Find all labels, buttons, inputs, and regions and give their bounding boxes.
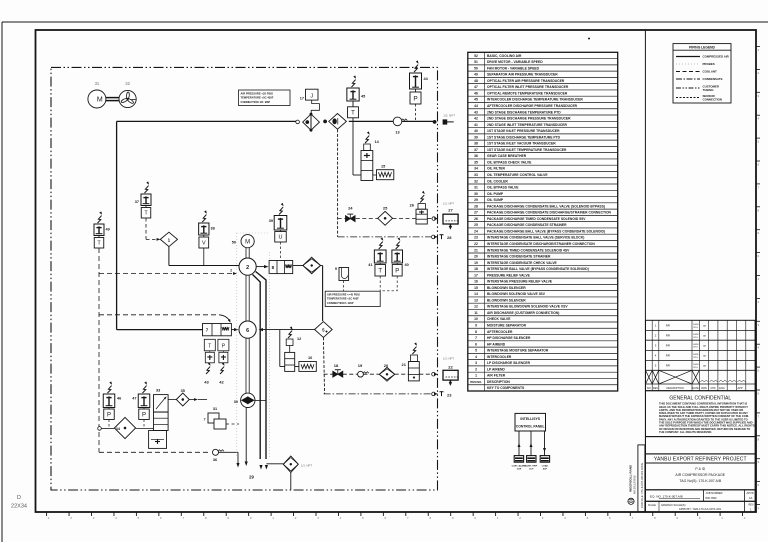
svg-text:9: 9	[475, 324, 477, 328]
ball valve 18	[333, 371, 338, 377]
eq row	[646, 490, 756, 502]
svg-text:3CR: 3CR	[517, 469, 522, 471]
svg-text:37: 37	[474, 148, 478, 152]
svg-text:OIL COOLER: OIL COOLER	[487, 179, 508, 183]
svg-text:BTG: BTG	[694, 337, 699, 339]
svg-text:48: 48	[474, 79, 478, 83]
drain from diamond B	[337, 129, 339, 237]
svg-text:APPD BY: YER-170-KA-0071-: APPD BY: YER-170-KA-0071-001	[679, 507, 722, 511]
svg-text:TAG No(S): 170-K-007 A/B: TAG No(S): 170-K-007 A/B	[679, 479, 721, 483]
svg-text:40: 40	[474, 129, 478, 133]
svg-text:T: T	[351, 110, 355, 116]
svg-text:OIL PUMP: OIL PUMP	[487, 192, 504, 196]
filter diamond 4	[303, 257, 321, 273]
bottom ruler ticks	[46, 513, 48, 517]
svg-text:39: 39	[269, 219, 273, 223]
svg-text:41: 41	[368, 263, 372, 267]
svg-text:NO: NO	[647, 387, 651, 390]
filter 35	[176, 393, 189, 406]
panel wires	[518, 431, 520, 456]
svg-text:INTERCOOLER DISCHARGE TEMPERAT: INTERCOOLER DISCHARGE TEMPERATURE TRANSD…	[487, 98, 583, 102]
svg-text:50: 50	[474, 66, 478, 70]
svg-text:1/2: NPT: 1/2: NPT	[443, 114, 455, 118]
svg-text:COOLANT: COOLANT	[703, 70, 718, 74]
svg-text:31: 31	[95, 81, 100, 86]
svg-text:PACKAGE DISCHARGE TIMED CONDEN: PACKAGE DISCHARGE TIMED CONDENSATE SOLEN…	[487, 217, 586, 221]
svg-text:P & ID: P & ID	[695, 467, 705, 471]
silencer 10	[295, 366, 299, 368]
svg-text:CHECK VALVE: CHECK VALVE	[487, 317, 511, 321]
svg-text:OPTICAL FILTER INLET PRESSURE: OPTICAL FILTER INLET PRESSURE TRANSDUCER	[487, 85, 569, 89]
main exit arrow + label	[433, 120, 436, 123]
shaft	[106, 97, 119, 99]
svg-text:26: 26	[410, 203, 415, 208]
wire 5 to cooler 6	[260, 329, 315, 331]
svg-text:12: 12	[474, 305, 478, 309]
svg-text:D: D	[17, 495, 21, 501]
instrument J 17	[306, 89, 319, 100]
svg-text:42: 42	[219, 380, 224, 385]
svg-text:CONNECTION 1/2: BSP: CONNECTION 1/2: BSP	[241, 100, 271, 104]
svg-text:PACKAGE DISCHARGE CONDENSATE S: PACKAGE DISCHARGE CONDENSATE STRAINER	[487, 223, 567, 227]
svg-text:INTERSTAGE BALL VALVE (BYPASS: INTERSTAGE BALL VALVE (BYPASS CONDENSATE…	[487, 267, 589, 271]
svg-text:35: 35	[181, 389, 185, 393]
svg-text:33: 33	[474, 173, 478, 177]
svg-text:DRN: DRN	[701, 387, 707, 390]
svg-text:OIL SUMP: OIL SUMP	[487, 198, 504, 202]
svg-text:RFI: RFI	[666, 364, 671, 368]
spec box (interstage)	[325, 291, 380, 306]
silencer 5	[315, 322, 333, 338]
svg-text:CAD FILE: 170-K-007-AB-001.DWG: CAD FILE: 170-K-007-AB-001.DWG	[640, 463, 644, 508]
svg-text:46: 46	[474, 91, 478, 95]
svg-text:17: 17	[474, 273, 478, 277]
wire 25-26	[393, 218, 417, 220]
svg-text:APP: APP	[737, 387, 742, 390]
svg-text:DATE: DATE	[692, 387, 699, 390]
svg-text:BTG: BTG	[694, 367, 699, 369]
drain from 5	[323, 337, 324, 394]
svg-text:CUST. TRIP: CUST. TRIP	[525, 465, 537, 467]
svg-text:32: 32	[125, 81, 130, 86]
svg-text:33: 33	[156, 389, 160, 393]
svg-text:36: 36	[474, 154, 478, 158]
svg-text:2ND STAGE DISCHARGE TEMPERATUR: 2ND STAGE DISCHARGE TEMPERATURE PTD	[487, 110, 561, 114]
svg-text:37: 37	[135, 200, 139, 204]
coupling lines	[245, 248, 247, 258]
svg-text:INTERSTAGE MOISTURE SEPARATOR: INTERSTAGE MOISTURE SEPARATOR	[487, 349, 549, 353]
P instrument 44	[414, 65, 418, 72]
svg-text:50: 50	[232, 241, 236, 245]
svg-text:45: 45	[474, 98, 478, 102]
svg-text:AIR PRESSURE <=45 PSIG: AIR PRESSURE <=45 PSIG	[327, 292, 360, 296]
valve block 7	[203, 324, 232, 336]
svg-text:38: 38	[211, 227, 215, 231]
svg-text:1ST STAGE INLET PRESSURE TRANS: 1ST STAGE INLET PRESSURE TRANSDUCER	[487, 129, 560, 133]
svg-text:HP DISCHARGE SILENCER: HP DISCHARGE SILENCER	[487, 336, 531, 340]
svg-text:PACKAGE DISCHARGE BALL VALVE (: PACKAGE DISCHARGE BALL VALVE (BYPASS CON…	[487, 229, 605, 233]
svg-text:10: 10	[308, 356, 312, 360]
svg-text:COMPRESSED AIR: COMPRESSED AIR	[703, 55, 730, 59]
svg-text:OPTICAL FILTER AIR PRESSURE TR: OPTICAL FILTER AIR PRESSURE TRANSDUCER	[487, 79, 565, 83]
svg-text:7: 7	[204, 418, 206, 422]
svg-text:AFTERCOOLER: AFTERCOOLER	[487, 330, 513, 334]
svg-text:43: 43	[204, 380, 209, 385]
P instrument 40	[396, 242, 400, 249]
line to exit	[349, 120, 433, 122]
svg-text:PIPING LEGEND: PIPING LEGEND	[689, 46, 715, 50]
svg-text:24: 24	[474, 229, 478, 233]
svg-text:5: 5	[475, 349, 477, 353]
svg-text:INTERSTAGE CONDENSATE DISCHARG: INTERSTAGE CONDENSATE DISCHARGE/STRAINER…	[487, 242, 595, 246]
T/P instruments 43 42	[204, 339, 215, 351]
svg-text:34: 34	[474, 167, 478, 171]
svg-text:CHK: CHK	[710, 387, 716, 390]
svg-text:OIL FILTER: OIL FILTER	[487, 167, 505, 171]
svg-text:HP AIREND: HP AIREND	[487, 342, 506, 346]
ball valve 24	[338, 218, 345, 220]
svg-text:PROBES: PROBES	[703, 62, 715, 66]
wire down to relief	[279, 330, 281, 367]
svg-text:PACKAGE DISCHARGE CONDENSATE B: PACKAGE DISCHARGE CONDENSATE BALL VALVE …	[487, 204, 605, 208]
arrow to valve 3	[256, 266, 264, 268]
svg-text:49: 49	[474, 73, 478, 77]
blowdown valve 14	[365, 136, 369, 143]
svg-text:AFTERCOOLER DISCHARGE PRESSURE: AFTERCOOLER DISCHARGE PRESSURE TRANSDUCE…	[487, 104, 578, 108]
svg-text:35: 35	[474, 160, 478, 164]
svg-text:BLOWDOWN SILENCER: BLOWDOWN SILENCER	[487, 286, 526, 290]
pump outlet down	[245, 408, 247, 463]
svg-text:P: P	[413, 95, 417, 102]
package boundary (dash-dot)	[51, 67, 438, 490]
svg-text:11: 11	[474, 311, 478, 315]
revision table	[646, 320, 756, 390]
strainer 20	[379, 367, 394, 381]
svg-text:INTERSTAGE TIMED CONDENSATE SO: INTERSTAGE TIMED CONDENSATE SOLENOID 4SV	[487, 248, 570, 252]
svg-text:29: 29	[474, 198, 478, 202]
svg-text:THE COMPANY. ALL RIGHTS RESERV: THE COMPANY. ALL RIGHTS RESERVED.	[659, 430, 712, 434]
svg-text:52: 52	[474, 54, 478, 58]
stray mark	[588, 38, 590, 40]
svg-text:ENG: ENG	[719, 387, 724, 390]
svg-text:AIR SOLUTIONS: AIR SOLUTIONS	[634, 475, 637, 494]
svg-text:PRESSURE RELIEF VALVE: PRESSURE RELIEF VALVE	[487, 273, 531, 277]
svg-text:INTERSTAGE CONDENSATE CHECK VA: INTERSTAGE CONDENSATE CHECK VALVE	[487, 261, 558, 265]
joint between diamonds	[323, 120, 326, 123]
dashed stem 49 down	[98, 248, 100, 452]
svg-text:22: 22	[474, 242, 478, 246]
check valve 13	[393, 117, 402, 126]
svg-text:10: 10	[474, 317, 478, 321]
svg-text:INTELLISYS: INTELLISYS	[520, 417, 540, 421]
svg-text:EQ. NO. 170-K-007 A/B: EQ. NO. 170-K-007 A/B	[650, 495, 683, 499]
svg-text:2: 2	[230, 269, 232, 273]
svg-text:30: 30	[234, 400, 238, 404]
svg-text:24: 24	[348, 206, 353, 211]
svg-text:23: 23	[447, 393, 452, 398]
svg-text:28: 28	[474, 204, 478, 208]
svg-text:6: 6	[475, 342, 477, 346]
svg-text:39: 39	[474, 135, 478, 139]
dashed to sep 2	[99, 273, 233, 275]
check valve 36	[99, 451, 211, 453]
oil pump 30	[245, 338, 247, 393]
wire 24-25	[356, 218, 378, 220]
svg-text:1/2: NPT: 1/2: NPT	[443, 202, 454, 206]
svg-text:8: 8	[475, 330, 477, 334]
svg-text:16: 16	[474, 280, 478, 284]
wire 4 down to 5	[321, 265, 323, 267]
svg-text:RFI: RFI	[666, 344, 671, 348]
svg-text:P: P	[142, 412, 146, 418]
filter diamond A (item 1)	[296, 120, 300, 124]
svg-text:17: 17	[300, 97, 304, 101]
svg-text:6: 6	[246, 328, 249, 334]
svg-text:PACKAGE DISCHARGE CONDENSATE D: PACKAGE DISCHARGE CONDENSATE DISCHARGE/S…	[487, 211, 612, 215]
svg-text:P: P	[395, 268, 399, 274]
svg-text:MOISTURE SEPARATOR: MOISTURE SEPARATOR	[487, 324, 527, 328]
svg-text:APVD: APVD	[747, 491, 754, 495]
svg-text:15: 15	[474, 286, 478, 290]
svg-text:21: 21	[402, 362, 407, 367]
svg-text:LP DISCHARGE SILENCER: LP DISCHARGE SILENCER	[487, 361, 531, 365]
terminal blocks	[514, 456, 523, 463]
svg-text:1ST STAGE INLET VACUUM TRANSDU: 1ST STAGE INLET VACUUM TRANSDUCER	[487, 142, 556, 146]
svg-text:30: 30	[474, 192, 478, 196]
svg-text:U: U	[279, 235, 283, 241]
svg-text:21: 21	[474, 248, 478, 252]
svg-text:INTERSTAGE CONDENSATE STRAINER: INTERSTAGE CONDENSATE STRAINER	[487, 255, 551, 259]
dwg row	[646, 501, 756, 512]
bottom arrows 29	[236, 463, 239, 468]
svg-text:45: 45	[361, 95, 365, 99]
svg-text:25: 25	[383, 206, 388, 211]
svg-text:SCALE: SCALE	[648, 504, 656, 507]
svg-text:T: T	[208, 344, 211, 350]
svg-text:22X34: 22X34	[11, 504, 27, 510]
svg-text:OIL BYPASS VALVE: OIL BYPASS VALVE	[487, 186, 519, 190]
V instrument 38	[202, 215, 206, 222]
svg-text:OIL TEMPERATURE CONTROL VALVE: OIL TEMPERATURE CONTROL VALVE	[487, 173, 548, 177]
svg-text:18: 18	[334, 363, 339, 368]
svg-text:1/2: NPT: 1/2: NPT	[443, 357, 454, 361]
svg-text:46: 46	[117, 397, 121, 401]
heavy pair from sep 2 down	[253, 275, 261, 460]
svg-text:47: 47	[132, 397, 136, 401]
svg-text:26: 26	[474, 217, 478, 221]
T instrument 45	[352, 80, 356, 87]
svg-text:1ST STAGE INLET TEMPERATURE TR: 1ST STAGE INLET TEMPERATURE TRANSDUCER	[487, 148, 567, 152]
svg-text:ITEM NO.: ITEM NO.	[470, 380, 482, 384]
P instrument 46	[108, 386, 112, 393]
svg-text:38: 38	[474, 142, 478, 146]
svg-text:29: 29	[249, 475, 254, 480]
wire diamond1 to sep2	[168, 247, 170, 266]
svg-text:13: 13	[474, 298, 478, 302]
svg-text:51: 51	[474, 60, 478, 64]
svg-text:25: 25	[474, 223, 478, 227]
svg-text:18: 18	[474, 267, 478, 271]
svg-text:INTERCOOLER: INTERCOOLER	[487, 355, 512, 359]
svg-text:OIL BYPASS CHECK VALVE: OIL BYPASS CHECK VALVE	[487, 160, 532, 164]
solenoid 21	[412, 347, 416, 354]
main pipe L-run	[117, 120, 297, 122]
svg-text:AIR FILTER: AIR FILTER	[487, 374, 506, 378]
solenoid 26	[420, 195, 424, 202]
svg-text:LP AIREND: LP AIREND	[487, 367, 505, 371]
relief valve 12	[288, 331, 292, 338]
project banner	[646, 454, 756, 463]
diamond 1	[160, 232, 177, 246]
svg-text:JOB NUMBER: JOB NUMBER	[706, 491, 723, 495]
svg-text:2ND STAGE INLET TEMPERATURE TR: 2ND STAGE INLET TEMPERATURE TRANSDUCER	[487, 123, 568, 127]
separator 2	[239, 258, 256, 275]
svg-text:BLOWDOWN SOLENOID VALVE 3SV: BLOWDOWN SOLENOID VALVE 3SV	[487, 292, 546, 296]
P instrument 47	[143, 386, 147, 393]
svg-text:4: 4	[475, 355, 477, 359]
svg-text:22: 22	[448, 364, 453, 369]
T instrument 41	[379, 242, 383, 249]
svg-text:P: P	[107, 412, 111, 418]
svg-text:27: 27	[448, 208, 453, 213]
svg-text:INGERSOLL-RAND: INGERSOLL-RAND	[629, 464, 633, 492]
silencer 15	[373, 174, 377, 176]
spec box (inlet)	[239, 90, 291, 106]
svg-text:REV: REV	[653, 387, 658, 390]
svg-text:40: 40	[405, 263, 409, 267]
svg-text:1/1: 1/1	[749, 496, 753, 500]
svg-text:GENERAL CONFIDENTIAL: GENERAL CONFIDENTIAL	[669, 395, 731, 401]
svg-text:20: 20	[384, 363, 389, 368]
right ruler ticks	[756, 46, 760, 48]
svg-text:BASIC, COOLING AIR: BASIC, COOLING AIR	[487, 54, 522, 58]
svg-text:INTERSTAGE BLOWDOWN SOLENOID V: INTERSTAGE BLOWDOWN SOLENOID VALVE XSV	[487, 305, 568, 309]
svg-text:13: 13	[395, 131, 399, 135]
svg-text:J: J	[310, 94, 313, 100]
equipment list table	[468, 52, 618, 391]
svg-text:DESCRIPTION: DESCRIPTION	[487, 380, 510, 384]
svg-text:BTG: BTG	[694, 357, 699, 359]
svg-text:CONNECTION 1: BSP: CONNECTION 1: BSP	[327, 301, 354, 305]
svg-text:KEY TO COMPONENTS: KEY TO COMPONENTS	[487, 386, 525, 390]
svg-text:FAN MOTOR - VARIABLE SPEED: FAN MOTOR - VARIABLE SPEED	[487, 66, 540, 70]
svg-text:LOAD: LOAD	[542, 464, 549, 467]
T instrument 49	[98, 216, 102, 223]
filter diamond B (item 2)	[329, 114, 347, 130]
title column divider	[644, 30, 646, 512]
svg-text:36: 36	[213, 458, 217, 462]
svg-text:32: 32	[474, 179, 478, 183]
svg-text:REV: REV	[749, 504, 754, 507]
piping legend box	[673, 44, 731, 103]
svg-text:GEAR CASE BREATHER: GEAR CASE BREATHER	[487, 154, 527, 158]
svg-text:19: 19	[358, 363, 363, 368]
svg-text:CONTROL PANEL: CONTROL PANEL	[516, 424, 545, 428]
svg-text:4CP: 4CP	[543, 468, 548, 471]
svg-text:TEMPERATURE <5C 400F: TEMPERATURE <5C 400F	[241, 96, 274, 100]
svg-text:AIR DISCHARGE (CUSTOMER CONNEC: AIR DISCHARGE (CUSTOMER CONNECTION)	[487, 311, 559, 315]
svg-text:42: 42	[474, 117, 478, 121]
dotted coolant lines	[236, 233, 238, 458]
svg-text:7: 7	[475, 336, 477, 340]
svg-text:1/2: NPT: 1/2: NPT	[301, 464, 312, 468]
svg-text:2: 2	[475, 367, 477, 371]
intellisys control panel	[515, 413, 546, 431]
svg-text:SEPARATOR AIR PRESSURE TRANSDU: SEPARATOR AIR PRESSURE TRANSDUCER	[487, 73, 558, 77]
thermo valve 34	[98, 427, 102, 431]
svg-text:DESCRIPTION: DESCRIPTION	[666, 387, 683, 390]
svg-text:BTG: BTG	[694, 327, 699, 329]
svg-text:2ND STAGE DISCHARGE PRESSURE T: 2ND STAGE DISCHARGE PRESSURE TRANSDUCER	[487, 117, 571, 121]
svg-text:INTERSTAGE PRESSURE RELIEF VAL: INTERSTAGE PRESSURE RELIEF VALVE	[487, 280, 553, 284]
svg-text:41: 41	[474, 123, 478, 127]
svg-text:CONDENSATE: CONDENSATE	[703, 77, 723, 81]
svg-text:DRIVE MOTOR - VARIABLE SPEED: DRIVE MOTOR - VARIABLE SPEED	[487, 60, 543, 64]
svg-text:3: 3	[475, 361, 477, 365]
svg-text:12: 12	[297, 337, 301, 341]
svg-text:M: M	[97, 97, 103, 104]
outer sheet border	[2, 21, 768, 23]
svg-text:AIR COMPRESSOR PACKAGE: AIR COMPRESSOR PACKAGE	[675, 473, 725, 477]
drawing info	[646, 463, 756, 490]
svg-text:15: 15	[381, 165, 385, 169]
svg-text:14: 14	[474, 292, 478, 296]
svg-text:1: 1	[168, 238, 171, 243]
strainer 25	[378, 211, 393, 225]
svg-text:23: 23	[474, 236, 478, 240]
check valve 19	[358, 371, 364, 377]
condensate line 28	[338, 236, 431, 238]
svg-text:CONNECTION: CONNECTION	[703, 97, 722, 101]
svg-text:2: 2	[246, 265, 249, 271]
svg-text:44: 44	[474, 104, 478, 108]
condensate line 23	[324, 393, 431, 395]
cooler 6	[239, 321, 256, 338]
valve block 3	[269, 261, 293, 274]
svg-text:20: 20	[474, 255, 478, 259]
svg-text:BTG: BTG	[694, 347, 699, 349]
dashed to sep 7	[99, 314, 219, 316]
svg-text:43: 43	[474, 110, 478, 114]
svg-text:1: 1	[475, 374, 477, 378]
svg-text:RFI: RFI	[666, 324, 671, 328]
svg-text:31: 31	[474, 186, 478, 190]
svg-text:49: 49	[106, 228, 110, 232]
strainer 28b	[266, 463, 283, 465]
wire 26-27	[427, 218, 432, 220]
V instrument 39	[279, 207, 283, 214]
svg-text:TEMPERATURE <5C 400F: TEMPERATURE <5C 400F	[327, 297, 359, 301]
svg-text:47: 47	[474, 85, 478, 89]
svg-text:3CP: 3CP	[529, 469, 534, 471]
svg-text:V: V	[202, 240, 206, 246]
svg-text:27: 27	[474, 211, 478, 215]
svg-text:OPTICAL REMOTE TEMPERATURE TRA: OPTICAL REMOTE TEMPERATURE TRANSDUCER	[487, 91, 568, 95]
cad strip	[638, 445, 645, 512]
svg-text:M: M	[245, 240, 250, 246]
svg-text:T: T	[378, 268, 382, 274]
spare box	[646, 437, 756, 454]
svg-text:845-7890: 845-7890	[706, 496, 718, 500]
svg-text:28: 28	[447, 235, 452, 240]
svg-text:19: 19	[474, 261, 478, 265]
svg-text:9: 9	[335, 267, 337, 271]
svg-text:CUST. ALARM: CUST. ALARM	[512, 464, 527, 467]
general confidential	[646, 391, 756, 437]
svg-text:1ST STAGE DISCHARGE TEMPERATUR: 1ST STAGE DISCHARGE TEMPERATURE PTD	[487, 135, 561, 139]
svg-text:INTERSTAGE CONDENSATE BALL VAL: INTERSTAGE CONDENSATE BALL VALVE (SERVIC…	[487, 236, 584, 240]
svg-text:BLOWDOWN SILENCER: BLOWDOWN SILENCER	[487, 298, 526, 302]
